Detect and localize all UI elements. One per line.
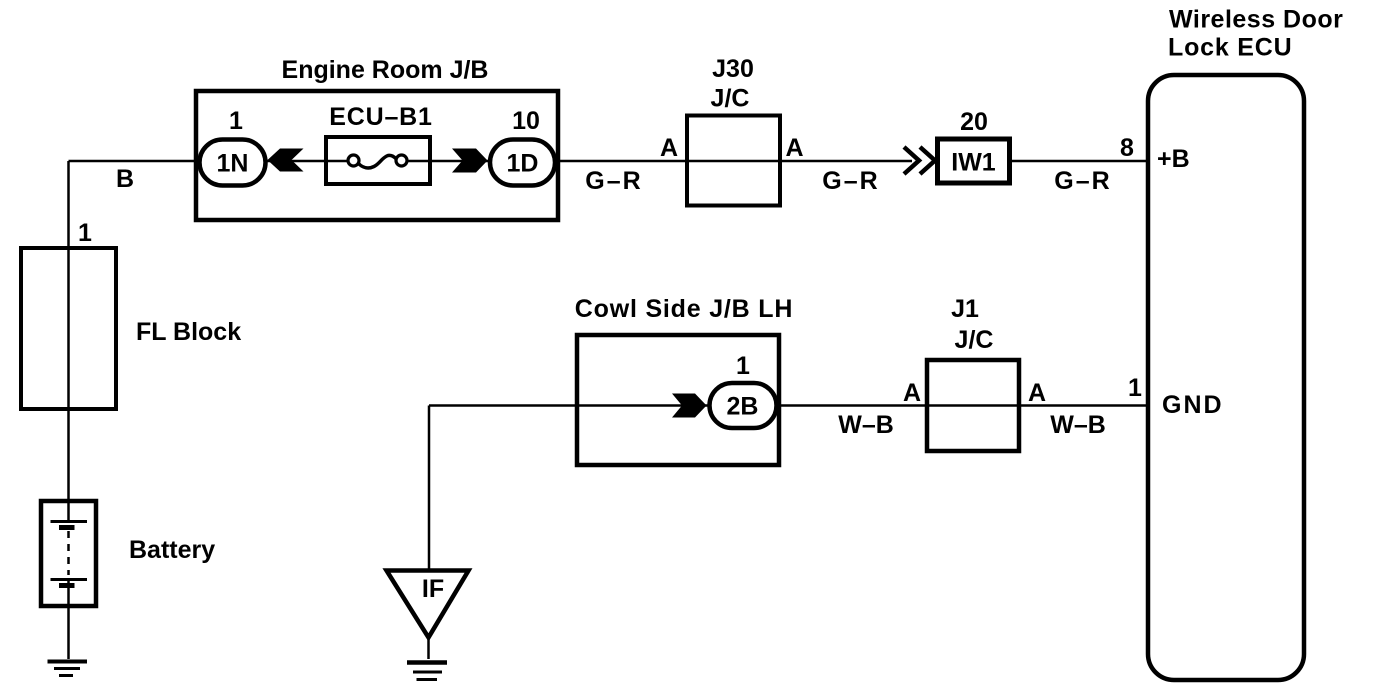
svg-text:GND: GND	[1162, 391, 1224, 419]
svg-text:G–R: G–R	[1054, 167, 1111, 195]
svg-text:1: 1	[78, 219, 92, 247]
svg-text:G–R: G–R	[822, 167, 879, 195]
svg-text:IW1: IW1	[951, 149, 996, 177]
battery cell top long plate	[51, 520, 88, 523]
fuse right terminal circle	[396, 155, 407, 166]
connector oval 1D	[490, 140, 555, 186]
wire vertical to IF ground	[428, 406, 431, 572]
arrow into 1D (points right)	[452, 149, 488, 173]
svg-text:J1: J1	[951, 295, 979, 323]
battery cell top short plate	[59, 525, 75, 530]
svg-text:IF: IF	[422, 575, 444, 603]
wire bottom row to ECU pin 1	[429, 404, 1148, 407]
svg-text:20: 20	[960, 108, 988, 136]
ground under IF	[407, 663, 447, 680]
wire B horizontal from corner to 1N	[69, 160, 200, 163]
svg-text:Battery: Battery	[129, 536, 215, 564]
wire fuse to 1D	[402, 160, 912, 163]
battery cell bottom short plate	[59, 583, 75, 588]
ground under battery	[48, 662, 88, 676]
svg-text:1: 1	[229, 107, 243, 135]
svg-text:B: B	[116, 165, 134, 193]
svg-text:Engine Room J/B: Engine Room J/B	[282, 56, 489, 84]
svg-text:W–B: W–B	[838, 411, 894, 439]
svg-text:A: A	[903, 379, 921, 407]
double chevron splice arrow	[904, 147, 935, 174]
svg-text:J30: J30	[712, 55, 754, 83]
svg-text:FL Block: FL Block	[136, 318, 241, 346]
battery box	[41, 501, 96, 606]
J1 J/C box	[927, 360, 1019, 451]
wire vertical battery feed	[67, 161, 70, 522]
wire IF triangle to ground	[427, 638, 430, 660]
wire 1N to fuse	[266, 160, 352, 163]
Wireless Door Lock ECU box	[1148, 75, 1304, 680]
FL Block box	[21, 248, 116, 409]
svg-text:Wireless Door: Wireless Door	[1169, 6, 1343, 34]
wire battery to ground	[67, 580, 70, 659]
svg-text:1: 1	[736, 352, 750, 380]
svg-text:Lock ECU: Lock ECU	[1168, 34, 1292, 62]
svg-text:G–R: G–R	[585, 167, 642, 195]
J30 J/C box	[687, 116, 780, 206]
svg-text:1D: 1D	[507, 150, 539, 178]
svg-text:1N: 1N	[217, 150, 249, 178]
fuse ECU-B1 box	[326, 137, 430, 184]
svg-text:A: A	[785, 134, 803, 162]
arrow into 2B (points right)	[672, 394, 707, 418]
svg-text:2B: 2B	[727, 393, 759, 421]
fuse left terminal circle	[348, 155, 359, 166]
connector oval 2B	[710, 383, 777, 428]
svg-text:W–B: W–B	[1050, 411, 1106, 439]
svg-text:A: A	[660, 134, 678, 162]
svg-text:ECU–B1: ECU–B1	[329, 103, 432, 131]
battery dashed link	[67, 531, 70, 575]
connector oval 1N	[200, 140, 266, 186]
svg-text:10: 10	[512, 107, 540, 135]
svg-text:J/C: J/C	[711, 85, 750, 113]
wire IW1 to ECU pin 8	[1010, 160, 1148, 163]
svg-text:8: 8	[1120, 134, 1134, 162]
ground point IF triangle	[387, 571, 469, 638]
svg-text:Cowl Side J/B LH: Cowl Side J/B LH	[575, 295, 793, 323]
fuse element wave	[358, 155, 397, 168]
battery cell bottom long plate	[51, 578, 88, 581]
IW1 box	[938, 139, 1010, 183]
svg-text:J/C: J/C	[955, 326, 994, 354]
Engine Room J/B box	[196, 91, 558, 220]
svg-text:1: 1	[1128, 374, 1142, 402]
svg-text:A: A	[1028, 379, 1046, 407]
arrow into 1N (points left)	[268, 149, 304, 172]
Cowl Side J/B LH box	[577, 335, 779, 465]
svg-text:+B: +B	[1157, 145, 1190, 173]
